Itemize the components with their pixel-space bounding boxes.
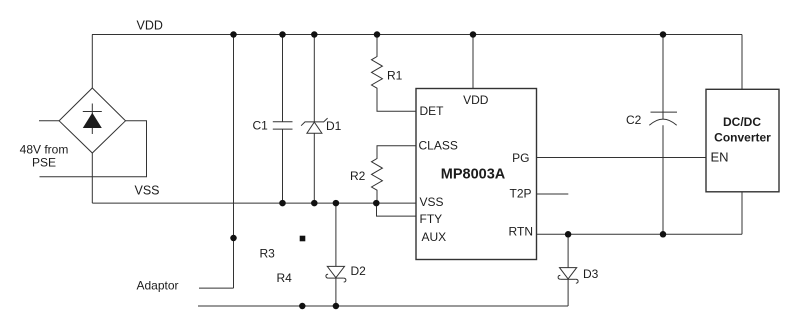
svg-text:MP8003A: MP8003A — [441, 167, 506, 183]
svg-text:Converter: Converter — [714, 131, 771, 145]
node top rail adaptor junction — [230, 31, 237, 38]
wire adaptor stub — [199, 287, 234, 289]
wire DC/DC top lead — [741, 35, 743, 90]
wire VSS rail — [92, 202, 416, 204]
svg-text:DC/DC: DC/DC — [723, 115, 761, 129]
svg-text:CLASS: CLASS — [419, 139, 458, 153]
node top rail R1 junction — [374, 31, 381, 38]
capacitor C2 — [649, 35, 677, 235]
node VSS rail D2 junction — [333, 200, 340, 207]
wire VDD pin lead — [472, 35, 474, 89]
node VSS rail R2 junction — [373, 200, 380, 207]
wire bridge top lead — [91, 35, 93, 89]
svg-text:FTY: FTY — [420, 212, 443, 226]
wire PG to EN — [537, 157, 707, 159]
svg-text:R4: R4 — [277, 271, 293, 285]
wire DC/DC bottom lead — [741, 192, 743, 235]
svg-text:R2: R2 — [350, 169, 366, 183]
svg-text:VSS: VSS — [420, 195, 444, 209]
capacitor C1 — [273, 35, 293, 204]
node bottom return dot — [299, 303, 306, 310]
svg-text:VDD: VDD — [463, 93, 489, 107]
node top rail C1 junction — [279, 31, 286, 38]
wire RTN — [537, 233, 743, 235]
wire right AC terminal — [40, 121, 147, 177]
wire adaptor vertical branch — [233, 35, 235, 289]
svg-text:C2: C2 — [626, 113, 642, 127]
svg-text:VSS: VSS — [135, 184, 160, 198]
node top rail VDD pin junction — [470, 31, 477, 38]
svg-text:T2P: T2P — [509, 187, 531, 201]
svg-text:EN: EN — [711, 150, 729, 165]
zener diode D2 — [326, 203, 346, 306]
node square marker — [300, 236, 306, 242]
svg-text:Adaptor: Adaptor — [137, 279, 179, 293]
wire left AC terminal — [39, 120, 59, 122]
svg-text:PG: PG — [512, 151, 529, 165]
zener diode D1 — [301, 35, 328, 204]
node VSS rail C1 junction — [279, 200, 286, 207]
svg-text:AUX: AUX — [422, 230, 447, 244]
wire FTY jog — [377, 203, 417, 216]
svg-text:D3: D3 — [583, 267, 599, 281]
resistor R2 with CLASS wire — [372, 146, 417, 203]
svg-text:RTN: RTN — [509, 225, 533, 239]
node bottom return D2 junction — [333, 303, 340, 310]
svg-text:DET: DET — [420, 104, 445, 118]
IC U1 MP8003A body — [416, 89, 537, 260]
svg-text:PSE: PSE — [32, 156, 56, 170]
zener diode D3 — [558, 234, 578, 306]
wire bridge bottom to VSS rail — [91, 153, 93, 203]
wire bottom return — [198, 305, 568, 307]
svg-text:48V from: 48V from — [20, 143, 69, 157]
svg-text:R1: R1 — [387, 69, 403, 83]
svg-text:C1: C1 — [253, 119, 269, 133]
svg-text:R3: R3 — [260, 247, 276, 261]
node VSS rail D1 junction — [311, 200, 318, 207]
node adaptor branch dot — [230, 235, 237, 242]
wire T2P stub — [537, 193, 569, 195]
svg-text:VDD: VDD — [137, 19, 163, 33]
bridge rectifier BR1 — [59, 88, 125, 153]
node top rail C2 junction — [660, 31, 667, 38]
resistor R1 — [372, 35, 417, 112]
svg-text:D2: D2 — [351, 264, 367, 278]
node RTN C2 junction — [660, 231, 667, 238]
node RTN D3 junction — [565, 231, 572, 238]
wire VDD top rail — [92, 34, 742, 36]
DC/DC converter U2 body — [706, 89, 779, 192]
svg-text:D1: D1 — [326, 119, 342, 133]
node top rail D1 junction — [311, 31, 318, 38]
